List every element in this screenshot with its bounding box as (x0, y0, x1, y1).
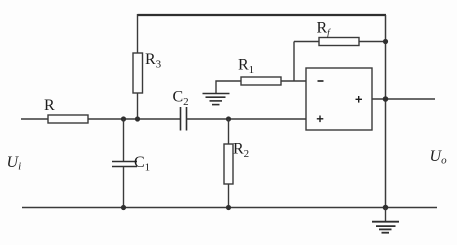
ground (R1 input) (203, 94, 230, 105)
node junction Rf output rail (383, 39, 388, 44)
wire main from C2 to op-amp (187, 118, 307, 120)
resistor R3 (133, 53, 143, 93)
svg-text:R: R (44, 97, 55, 114)
node junction R2 tap (226, 116, 231, 121)
capacitor C1 (112, 161, 137, 163)
resistor Rf (319, 38, 359, 46)
wire right vertical rail (385, 15, 387, 208)
op-amp inverting sign (318, 80, 324, 82)
wire R3 top lead (137, 14, 139, 53)
node junction C1 tap (121, 116, 126, 121)
capacitor C2 (180, 107, 182, 131)
node junction C1 bottom (121, 205, 126, 210)
node junction output rail bottom (383, 205, 389, 211)
wire R2 bottom lead (228, 184, 230, 208)
resistor R1 (241, 77, 281, 85)
op-amp output plus sign (356, 96, 363, 103)
wire C1 bottom lead (123, 167, 125, 208)
ground (output rail) (385, 208, 387, 222)
wire R2 top lead (228, 119, 230, 144)
op-amp U1 (306, 68, 372, 130)
resistor R (48, 115, 88, 123)
wire R1 to op-amp inverting input (281, 80, 306, 82)
resistor R2 (224, 144, 233, 184)
wire bottom rail (22, 207, 437, 209)
wire top horizontal from R3 branch to right rail (138, 14, 387, 16)
wire R3 bottom lead (137, 93, 139, 119)
wire feedback vertical from inverting node up to Rf (293, 42, 295, 82)
wire C1 top lead (123, 119, 125, 161)
wire Rf left lead (294, 41, 319, 43)
node junction output (383, 96, 389, 102)
wire main from R to C2 (88, 118, 181, 120)
wire output (372, 98, 435, 100)
wire input left segment (21, 118, 48, 120)
node junction R3 tap (135, 116, 140, 121)
op-amp non-inverting sign (317, 116, 324, 123)
wire Rf right lead (359, 41, 386, 43)
node junction R2 bottom (226, 205, 231, 210)
wire R1 ground lead (216, 81, 241, 94)
